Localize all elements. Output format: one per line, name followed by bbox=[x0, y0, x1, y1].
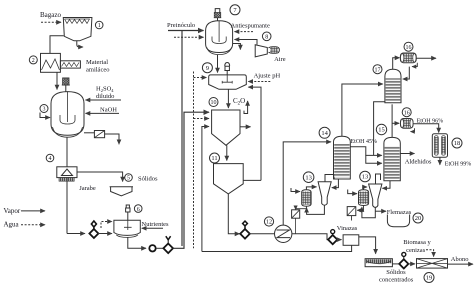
wire V1 bottom spout bbox=[77, 41, 83, 47]
solids trough T5 bbox=[110, 187, 133, 196]
svg-text:13: 13 bbox=[362, 174, 369, 181]
wire F10 to F11 bbox=[226, 145, 228, 160]
wire C17 vapor to condenser E16a bbox=[393, 58, 400, 69]
wire E16b vent bbox=[411, 128, 415, 131]
svg-text:Preinóculo: Preinóculo bbox=[167, 22, 195, 29]
svg-text:NaOH: NaOH bbox=[100, 107, 117, 114]
reboiler drum RB2 bbox=[359, 190, 369, 206]
wire NaOH feed bbox=[86, 112, 120, 114]
svg-text:20: 20 bbox=[415, 215, 422, 222]
wire VC1 to control valve bbox=[156, 247, 163, 249]
node circle 13 first bbox=[303, 172, 314, 183]
svg-text:Agua: Agua bbox=[4, 221, 20, 229]
wire recycle riser from F11 into V9 bbox=[248, 87, 261, 180]
svg-text:13: 13 bbox=[305, 174, 312, 181]
wire E12 to column C14 (preheated beer) bbox=[283, 142, 331, 225]
wire RB1 vapor to cyclone CY1 bbox=[306, 187, 316, 190]
wire biomasa feed (dashed) bbox=[426, 250, 434, 257]
wire E16a distillate out bbox=[416, 57, 436, 59]
node circle 17 bbox=[373, 65, 382, 74]
node circle 2 bbox=[29, 56, 37, 64]
node circle 12 bbox=[264, 217, 273, 226]
wire V6 bottom outlet bbox=[128, 237, 146, 248]
node circle 3 bbox=[40, 105, 48, 113]
condenser E16b bbox=[401, 119, 414, 129]
node circle 16 bottom bbox=[402, 108, 411, 117]
node circle 19 bbox=[424, 273, 434, 283]
filter box F bbox=[94, 131, 104, 138]
svg-text:1: 1 bbox=[98, 23, 101, 29]
blower B8 bbox=[255, 45, 267, 57]
reboiler drum RB1 bbox=[302, 190, 311, 207]
svg-text:10: 10 bbox=[211, 100, 217, 106]
svg-text:Abono: Abono bbox=[451, 256, 469, 263]
wire mill to reactor R3 bbox=[56, 72, 58, 89]
cyclone CY1 bbox=[318, 182, 331, 206]
wire V9 to F10 bbox=[227, 89, 229, 108]
fermenter F10 bbox=[212, 110, 240, 145]
steam trap box ST1 bbox=[292, 210, 300, 218]
valve VA1 (jarabe) bbox=[89, 229, 98, 238]
wire RB1 drain into ST1 bbox=[296, 206, 307, 209]
wire C15 aldehyde draw bbox=[400, 153, 414, 155]
reactor R3 stirred tank bbox=[51, 92, 84, 136]
node circle 10 bbox=[209, 98, 218, 107]
control valve CV3 (beer line) bbox=[240, 229, 250, 239]
svg-text:EtOH 45%: EtOH 45% bbox=[351, 139, 378, 145]
control valve CV2 (seed line) bbox=[163, 244, 173, 254]
svg-text:11: 11 bbox=[211, 155, 217, 162]
wire dashed input to V6 upper bbox=[101, 222, 112, 229]
motor of prefermenter V9 bbox=[224, 63, 230, 75]
wire E16b product to sieves U18 bbox=[413, 124, 439, 133]
motor of seed tank V6 bbox=[125, 205, 130, 220]
wire F10 vent stub to riser bbox=[240, 126, 251, 128]
wire CY1 vapor return to C14 bbox=[325, 175, 334, 182]
press P4 bbox=[57, 167, 77, 178]
svg-text:16: 16 bbox=[404, 110, 410, 116]
wire C15 vapor to C17 and condenser bbox=[391, 104, 393, 137]
svg-text:EtOH 99%: EtOH 99% bbox=[445, 162, 472, 168]
svg-text:14: 14 bbox=[321, 130, 328, 137]
wire C15 vapor branch into E16b bbox=[392, 122, 399, 124]
wire vinaza recycle riser to F10 bbox=[202, 127, 209, 252]
agitator of V9 bbox=[222, 75, 232, 84]
agitator of V7 bbox=[212, 21, 226, 44]
svg-text:Biomasa y: Biomasa y bbox=[403, 239, 431, 246]
node circle 13 second bbox=[360, 171, 371, 182]
column C17 bbox=[385, 69, 401, 103]
node circle 14 bbox=[319, 127, 330, 138]
node circle 6 bbox=[134, 205, 142, 213]
node circle 7 bbox=[230, 5, 240, 15]
wire trough to dryer valve bbox=[392, 263, 398, 265]
svg-text:18: 18 bbox=[454, 140, 461, 147]
svg-text:Nutrientes: Nutrientes bbox=[142, 221, 170, 228]
control valve CV4 (vinazas) bbox=[328, 235, 337, 244]
svg-text:Aldehidos: Aldehidos bbox=[405, 159, 432, 166]
wire ST1 drain bbox=[295, 218, 297, 234]
prefermenter V7 stirred tank bbox=[206, 21, 233, 53]
wire C14 vapor to C17 bbox=[342, 84, 383, 136]
svg-text:H2SO4: H2SO4 bbox=[96, 86, 114, 94]
wire C14 sidedraw to C15 bbox=[350, 147, 382, 156]
wire dashed water line into V7 bbox=[174, 36, 204, 38]
svg-text:amiláceo: amiláceo bbox=[86, 67, 109, 74]
wire dashed water riser bbox=[193, 72, 195, 249]
wire jarabe to valve bbox=[67, 233, 85, 235]
motor of reactor R3 bbox=[62, 78, 70, 92]
wire box to solids trough bbox=[359, 237, 376, 254]
mill M2 bbox=[41, 53, 61, 72]
wire jarabe line down bbox=[66, 178, 68, 234]
wire steam riser to prefermenter V7 bbox=[168, 31, 204, 247]
dryer D19 bbox=[417, 259, 448, 269]
node circle 16 top bbox=[404, 42, 413, 51]
valve circle VC1 bbox=[149, 245, 155, 251]
agitator of V6 bbox=[124, 220, 132, 230]
wire steam stub into RB2 bbox=[348, 190, 357, 194]
wire H2SO4 feed bbox=[86, 99, 122, 101]
svg-text:Vinazas: Vinazas bbox=[337, 225, 358, 232]
wire ST2 drain bbox=[351, 216, 353, 221]
wire F11 side vent to riser bbox=[243, 179, 261, 181]
condenser E16a bbox=[400, 53, 416, 63]
wire dashed branch to prefermenter V9 bbox=[194, 77, 207, 79]
washer tank V1 bbox=[63, 18, 92, 41]
wire box bottom recycle to F10 bbox=[202, 245, 352, 251]
seed tank V6 bbox=[114, 220, 140, 235]
svg-text:Ajuste pH: Ajuste pH bbox=[254, 73, 281, 80]
node circle 8 bbox=[262, 32, 271, 41]
wire CY1 bottoms thermosiphon bbox=[307, 205, 325, 214]
svg-text:concentrados: concentrados bbox=[379, 276, 414, 283]
svg-text:16: 16 bbox=[406, 45, 412, 51]
wire press to solids trough bbox=[77, 172, 123, 182]
control valve CV5 (dryer feed) bbox=[399, 259, 408, 268]
wire air line to V7 bbox=[235, 40, 258, 45]
wire C14 lower draw to C15 bbox=[366, 155, 382, 163]
prefermenter V9 horizontal tank bbox=[209, 75, 247, 89]
solids trough (concentrated) bbox=[365, 259, 392, 267]
wire bagazo feed arrow (dashed) bbox=[41, 21, 61, 23]
svg-text:5: 5 bbox=[127, 176, 130, 182]
wire C15 bottoms into CY2 bbox=[382, 181, 390, 189]
wire seed riser to fermenter F10 bbox=[173, 112, 209, 248]
svg-text:2: 2 bbox=[32, 58, 35, 64]
wire RB2 vapor to cyclone CY2 bbox=[364, 187, 368, 190]
svg-text:Antiespumante: Antiespumante bbox=[231, 23, 270, 30]
node circle 18 bbox=[452, 138, 462, 148]
cyclone CY2 bbox=[369, 184, 382, 207]
wire U18 product EtOH 99% bbox=[439, 157, 441, 165]
wire V1 to mill bbox=[50, 36, 64, 54]
wire valve to seed tank V6 bbox=[98, 233, 112, 235]
node circle 11 bbox=[210, 153, 220, 163]
svg-text:Material: Material bbox=[86, 59, 108, 66]
wire E12 outlet to vinaza valve bbox=[292, 234, 329, 240]
distillation column C14 bbox=[334, 136, 351, 179]
svg-text:diluido: diluido bbox=[96, 93, 114, 100]
heat exchanger E12 bbox=[275, 225, 292, 242]
wire R3 bottom to press bbox=[66, 137, 68, 166]
svg-text:C2O: C2O bbox=[233, 97, 245, 107]
wire E16a vent bbox=[412, 63, 417, 67]
wire CO2 vent of F10 bbox=[244, 101, 248, 114]
node circle 15 bbox=[376, 124, 386, 134]
svg-text:17: 17 bbox=[375, 67, 381, 73]
wire valve to vinaza box bbox=[337, 239, 342, 241]
wire filter box outlet bbox=[105, 134, 119, 144]
wire antiespumante feed (dashed) bbox=[235, 31, 254, 33]
fermenter F11 bbox=[214, 164, 244, 194]
motor of prefermenter V7 bbox=[214, 9, 221, 21]
svg-text:8: 8 bbox=[265, 35, 268, 41]
node circle 1 bbox=[95, 21, 103, 29]
svg-text:3: 3 bbox=[43, 107, 46, 113]
vinaza flash box bbox=[343, 235, 359, 246]
node circle 20 bbox=[413, 213, 423, 223]
wire CY2 bottoms thermosiphon bbox=[362, 207, 375, 218]
svg-text:Sólidos: Sólidos bbox=[386, 269, 406, 276]
wire steam stub into RB1 bbox=[291, 188, 300, 192]
wire V7 side drain bbox=[233, 44, 241, 50]
node circle 5 bbox=[125, 174, 133, 182]
svg-text:6: 6 bbox=[137, 207, 140, 213]
svg-text:9: 9 bbox=[206, 65, 209, 72]
svg-text:Flemazas: Flemazas bbox=[387, 209, 412, 216]
wire V7 to V9 bbox=[217, 55, 219, 73]
svg-text:15: 15 bbox=[378, 127, 385, 134]
wire C17 bottoms to C15 bbox=[374, 102, 386, 156]
svg-text:Vapor: Vapor bbox=[4, 207, 21, 215]
wire dashed branch to fermenter F10 bbox=[194, 118, 210, 120]
wire R3 to filter box bbox=[84, 132, 94, 134]
wire E16a reflux to C17 bbox=[403, 67, 410, 79]
screen of mill M2 bbox=[60, 61, 80, 68]
node circle 9 bbox=[202, 63, 212, 73]
wire ajuste pH feed (dashed) bbox=[248, 81, 270, 83]
svg-text:cenizas: cenizas bbox=[406, 247, 426, 254]
wire valve to exchanger E12 bbox=[249, 233, 274, 235]
rectifying column C15 bbox=[384, 137, 400, 180]
wire C14 bottoms into CY1 bbox=[332, 179, 339, 188]
svg-text:Bagazo: Bagazo bbox=[40, 11, 61, 19]
svg-text:Aire: Aire bbox=[274, 56, 286, 63]
node circle 4 bbox=[46, 154, 54, 162]
wire dryer outlet bbox=[448, 263, 474, 265]
wire RB2 drain into ST2 bbox=[357, 206, 363, 211]
wire nutrientes arrow bbox=[142, 227, 163, 229]
steam trap box ST2 bbox=[347, 207, 356, 216]
wire F11 bottom to beer valve bbox=[228, 194, 239, 234]
molecular sieves U18 bbox=[432, 134, 447, 158]
svg-text:Jarabe: Jarabe bbox=[79, 185, 96, 192]
svg-text:12: 12 bbox=[266, 220, 272, 226]
svg-text:7: 7 bbox=[233, 7, 237, 14]
svg-text:4: 4 bbox=[49, 156, 52, 162]
flemazas trough T20 bbox=[387, 215, 409, 227]
svg-text:Sólidos: Sólidos bbox=[138, 176, 158, 183]
wire left input to R3 bbox=[40, 113, 50, 118]
wire CY2 vapor return to C15 bbox=[376, 174, 381, 184]
svg-text:19: 19 bbox=[426, 275, 433, 282]
agitator of R3 bbox=[60, 92, 75, 124]
wire flemazas draw bbox=[375, 210, 386, 212]
wire valve to dryer bbox=[408, 263, 415, 265]
